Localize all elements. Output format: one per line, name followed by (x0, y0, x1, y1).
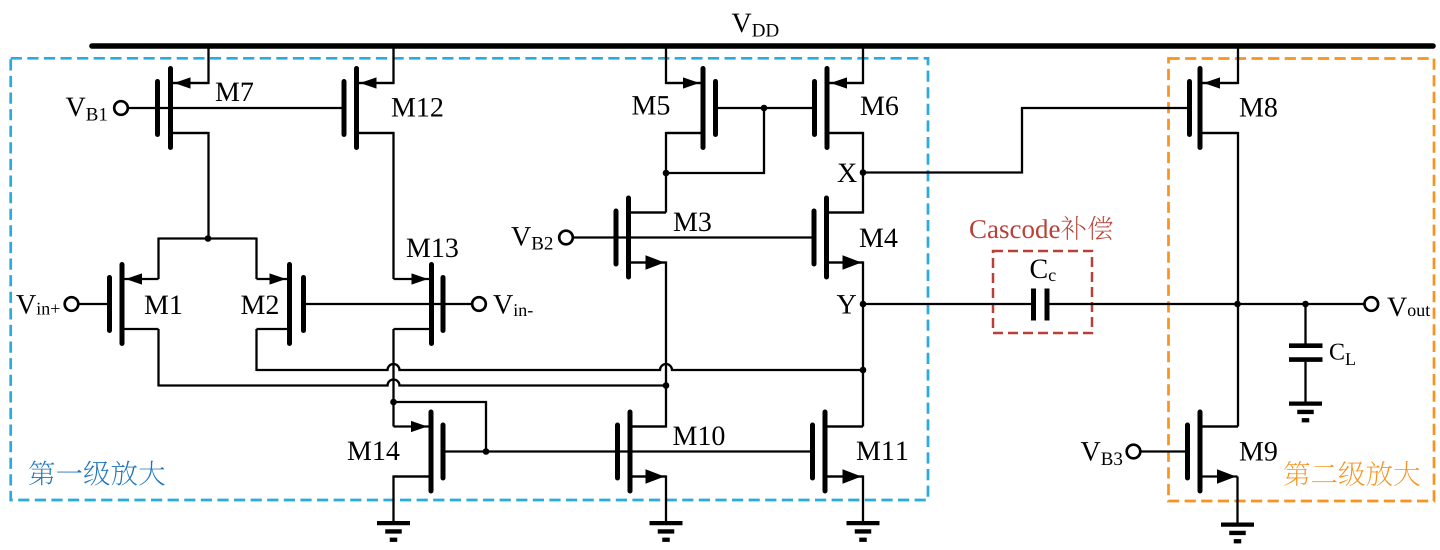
wire M7 source down (tail) (170, 133, 209, 239)
wire M9 drain (1200, 425, 1238, 427)
wire M4 source down to Y (827, 263, 864, 305)
wire bus M2-drain to Y (with hops) (257, 364, 864, 370)
transistor M9 (1188, 412, 1238, 491)
wire jumper to gate bus (394, 402, 487, 452)
wire M5 source to VDD (666, 46, 703, 83)
caption second stage (Chinese) (1284, 461, 1420, 486)
wire M11 source to ground (825, 477, 863, 522)
ground (1221, 525, 1254, 542)
wire VB3 to M9 gate (1140, 450, 1185, 452)
wire M14 source to ground (394, 477, 432, 522)
caption Cascode compensation (Chinese part) (1061, 216, 1113, 240)
wire M9 source to ground (1236, 477, 1238, 523)
net label VDD (732, 14, 779, 37)
wire down to M14 drain (392, 401, 394, 427)
transistor M1 (110, 265, 159, 344)
caption first stage (Chinese) (29, 460, 165, 485)
wire X to M8 gate (863, 108, 1187, 173)
wire output to CL (1304, 304, 1306, 344)
label M3 (674, 212, 711, 231)
transistor M3 (616, 198, 666, 277)
wire M6 drain down to X (827, 133, 863, 173)
net label X (838, 164, 857, 182)
wire M12 drain to VDD (357, 46, 394, 83)
wire M2 gate to Vin- (305, 303, 473, 305)
label M9 (1240, 442, 1277, 461)
transistor M14 (394, 412, 444, 491)
junction M5 gate (761, 105, 768, 112)
wire M2 source up (255, 238, 257, 280)
wire VB2 gate line (572, 236, 811, 238)
net label VB1 (66, 98, 107, 121)
terminal Vout (1365, 297, 1379, 311)
value label Cc (1031, 259, 1056, 281)
wire VB1 gate line (128, 107, 342, 109)
transistor M12 (344, 69, 394, 148)
terminal VB1 (114, 101, 128, 115)
label M7 (216, 83, 253, 101)
label M14 (348, 442, 400, 460)
wire Y to Cc left plate (863, 303, 1031, 305)
VDD power rail (92, 43, 1433, 49)
label M2 (241, 295, 278, 314)
transistor M2 (257, 265, 304, 344)
junction output / CL (1302, 301, 1309, 308)
transistor M13 (394, 265, 444, 344)
wire tail node (159, 237, 257, 239)
wire M1 source up (157, 238, 159, 280)
net label Vin- (493, 295, 532, 316)
wire M2 drain down (255, 329, 257, 371)
wire M11 drain up (825, 425, 863, 427)
transistor M11 (813, 412, 864, 491)
wire M6 source to VDD (827, 46, 863, 83)
wire M3 drain up (629, 211, 667, 213)
capacitor CL (1289, 346, 1323, 360)
wire CL to ground (1304, 362, 1306, 402)
label M11 (857, 442, 907, 460)
net label Vout (1387, 298, 1430, 317)
transistor M5 (666, 69, 716, 148)
wire M3 source down (629, 263, 667, 387)
label M10 (673, 426, 724, 445)
label M4 (860, 229, 898, 247)
second stage boundary box (orange dashed) (1169, 59, 1435, 502)
wire Vin+ to M1 gate (78, 303, 108, 305)
net label VB2 (511, 227, 552, 249)
wire M5 diode connection (666, 108, 764, 173)
wire M13 source down (392, 329, 394, 403)
transistor M4 (814, 198, 863, 277)
terminal Vin+ (65, 297, 79, 311)
junction Y / bus A (860, 367, 867, 374)
junction tail node (205, 235, 212, 242)
wire M5 drain down to M3 (666, 133, 703, 213)
transistor M7 (158, 69, 209, 148)
junction output / M8-M9 (1234, 301, 1241, 308)
net label Vin+ (16, 295, 59, 314)
ground (1289, 404, 1322, 421)
wire M8 drain down to M9 (1200, 133, 1238, 427)
label M5 (632, 96, 669, 115)
wire M7 drain to VDD (170, 46, 209, 83)
wire M10 source to ground (630, 477, 666, 522)
value label CL (1330, 344, 1355, 365)
wire bus M1-drain to M3-source (with hop) (159, 380, 667, 386)
wire M8 source to VDD (1200, 46, 1238, 83)
node X junction (860, 169, 867, 176)
node Y junction (860, 301, 867, 308)
wire Cc right plate to output (1050, 303, 1366, 305)
junction M5 drain (663, 170, 670, 177)
junction bus B / M3 source (663, 382, 670, 389)
transistor M6 (815, 69, 864, 148)
label M8 (1240, 98, 1277, 117)
first stage boundary box (blue dashed) (11, 58, 928, 500)
wire M5-M6 gate line (716, 107, 813, 109)
wire M1 drain down (157, 329, 159, 387)
junction M13/M14 node (390, 399, 397, 406)
wire M10 drain up (630, 385, 666, 427)
wire M4 drain up (827, 172, 864, 213)
ground (650, 523, 683, 540)
wire Y down to M11 (862, 304, 864, 427)
transistor M8 (1190, 69, 1239, 148)
wire M12 source down to M13 (357, 133, 394, 279)
terminal Vin- (472, 297, 486, 311)
capacitor Cc (1034, 289, 1048, 321)
compensation box (red dashed) (993, 251, 1092, 333)
label M1 (145, 296, 181, 314)
label M13 (407, 238, 458, 257)
wire NMOS gate bus (446, 450, 811, 452)
transistor M10 (618, 412, 667, 491)
net label Y (837, 295, 856, 313)
label M6 (861, 96, 898, 115)
caption Cascode compensation (Latin part) (970, 219, 1059, 238)
ground (847, 523, 880, 540)
net label VB3 (1081, 442, 1122, 465)
terminal VB3 (1127, 445, 1141, 459)
label M12 (392, 98, 443, 117)
terminal VB2 (559, 231, 573, 245)
junction gate bus (483, 448, 490, 455)
ground (377, 523, 410, 540)
